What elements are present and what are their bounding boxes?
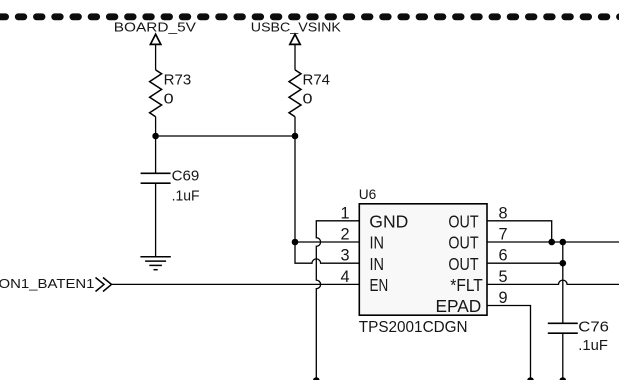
svg-text:R73: R73 — [164, 73, 192, 89]
svg-text:C69: C69 — [172, 168, 200, 184]
svg-text:5: 5 — [499, 268, 508, 286]
svg-text:0: 0 — [303, 92, 313, 108]
svg-text:U6: U6 — [359, 187, 377, 202]
svg-text:.1uF: .1uF — [172, 188, 200, 204]
svg-text:.1uF: .1uF — [578, 338, 608, 354]
svg-text:OUT: OUT — [448, 211, 479, 231]
svg-text:OUT: OUT — [448, 254, 479, 274]
svg-text:USBC_VSINK: USBC_VSINK — [251, 20, 341, 35]
svg-text:6: 6 — [499, 247, 508, 265]
svg-text:IN: IN — [370, 233, 385, 253]
svg-text:8: 8 — [499, 204, 508, 222]
svg-text:IN: IN — [370, 254, 385, 274]
svg-text:1: 1 — [340, 204, 349, 222]
svg-text:3: 3 — [340, 247, 349, 265]
svg-text:EPAD: EPAD — [436, 296, 482, 316]
svg-text:R74: R74 — [303, 73, 331, 89]
svg-text:OUT: OUT — [448, 233, 479, 253]
svg-text:7: 7 — [499, 226, 508, 244]
svg-text:C76: C76 — [578, 320, 609, 336]
svg-text:0: 0 — [164, 92, 174, 108]
svg-text:ON1_BATEN1: ON1_BATEN1 — [0, 276, 95, 291]
svg-text:TPS2001CDGN: TPS2001CDGN — [359, 319, 468, 336]
svg-text:BOARD_5V: BOARD_5V — [114, 20, 196, 35]
svg-text:EN: EN — [370, 275, 389, 295]
svg-text:*FLT: *FLT — [450, 275, 483, 295]
svg-text:4: 4 — [340, 268, 349, 286]
svg-text:9: 9 — [499, 289, 508, 307]
svg-text:2: 2 — [340, 226, 349, 244]
svg-text:GND: GND — [369, 211, 408, 231]
